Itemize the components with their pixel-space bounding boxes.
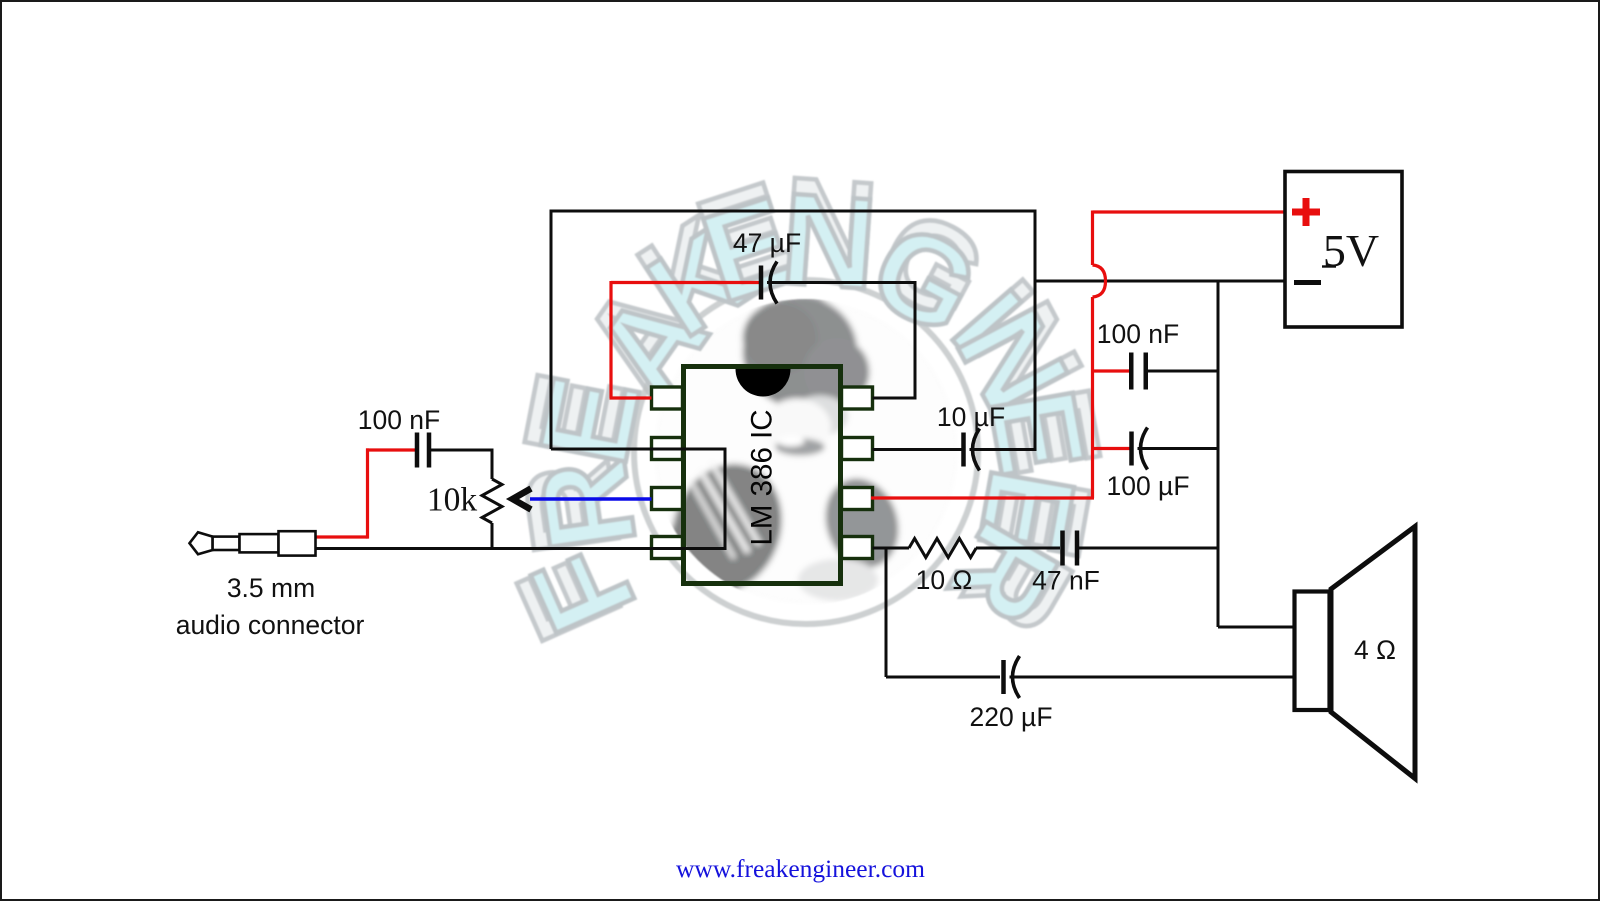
svg-text:10 Ω: 10 Ω [916,565,973,595]
svg-text:100 µF: 100 µF [1106,471,1189,501]
svg-text:100 nF: 100 nF [1097,319,1180,349]
svg-text:3.5 mm: 3.5 mm [227,573,315,603]
svg-text:www.freakengineer.com: www.freakengineer.com [676,854,925,883]
svg-text:10k: 10k [427,482,478,519]
svg-text:47 nF: 47 nF [1032,566,1100,596]
svg-text:220 µF: 220 µF [969,702,1052,732]
svg-text:47 µF: 47 µF [733,228,801,258]
svg-text:10 µF: 10 µF [937,402,1005,432]
svg-text:5V: 5V [1323,225,1379,276]
svg-text:LM 386 IC: LM 386 IC [746,409,779,545]
svg-text:100 nF: 100 nF [358,405,441,435]
svg-text:audio connector: audio connector [176,610,365,640]
svg-text:4 Ω: 4 Ω [1354,635,1396,665]
